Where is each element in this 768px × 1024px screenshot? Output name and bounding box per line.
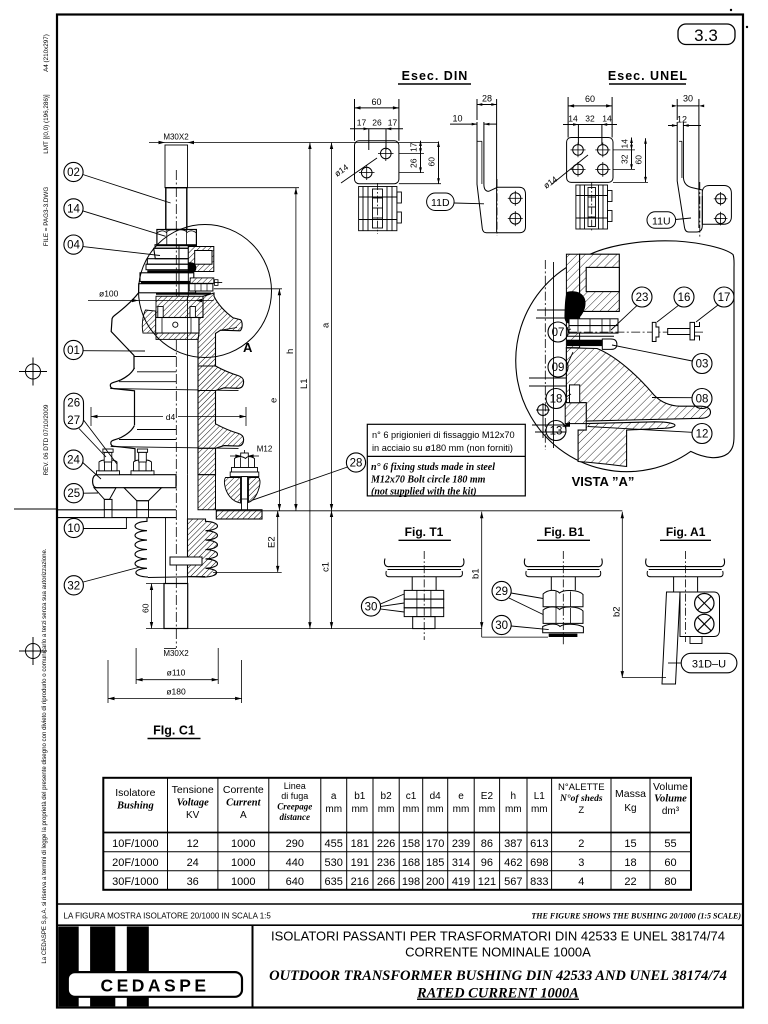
callout 09 (548, 357, 568, 377)
svg-text:Esec. DIN: Esec. DIN (402, 69, 469, 83)
dim b2 (621, 512, 623, 678)
svg-text:613: 613 (530, 838, 548, 850)
svg-text:10: 10 (452, 114, 462, 124)
flange hub right hatched (198, 475, 216, 510)
corrugated lower porcelain left (135, 518, 148, 578)
svg-text:158: 158 (402, 838, 420, 850)
svg-text:c1: c1 (406, 791, 417, 802)
svg-text:26: 26 (409, 158, 419, 168)
label 11U (647, 212, 676, 229)
svg-text:86: 86 (481, 838, 493, 850)
stem dim 60 (146, 583, 164, 585)
bolt shafts through plate (104, 510, 112, 518)
svg-text:12: 12 (187, 838, 199, 850)
svg-text:10F/1000: 10F/1000 (112, 838, 158, 850)
svg-text:96: 96 (481, 857, 493, 869)
shed3 right section hatched (198, 391, 244, 449)
clamp plate item 07 in main fig (156, 318, 199, 334)
svg-text:440: 440 (286, 857, 304, 869)
svg-text:60: 60 (634, 155, 644, 165)
DIN hole label dia14 (341, 158, 377, 183)
A1 rod (673, 577, 675, 592)
callout 16 (674, 287, 694, 307)
callouts left column (64, 162, 366, 595)
callout 04 (64, 235, 83, 254)
svg-text:Bushing: Bushing (116, 801, 154, 812)
callout 13 (546, 421, 566, 441)
clamp thin hatch row (190, 278, 214, 283)
shed3 left profile (111, 425, 135, 474)
svg-text:216: 216 (351, 876, 369, 888)
black spring pack small (188, 262, 196, 273)
svg-text:c1: c1 (321, 562, 332, 572)
svg-text:640: 640 (286, 876, 304, 888)
svg-text:CEDASPE: CEDASPE (100, 976, 209, 996)
callout 25 (64, 484, 83, 503)
svg-text:FILE = PAG3-3.DWG: FILE = PAG3-3.DWG (43, 187, 50, 247)
CEDASPE logo black field (58, 926, 149, 1006)
shed2 left profile (110, 368, 134, 425)
svg-text:Voltage: Voltage (177, 798, 209, 809)
svg-text:M12x70 Bolt circle 180 mm: M12x70 Bolt circle 180 mm (370, 475, 486, 486)
svg-text:419: 419 (452, 876, 470, 888)
svg-text:02: 02 (67, 167, 80, 179)
svg-text:in acciaio su ø180 mm (non for: in acciaio su ø180 mm (non forniti) (372, 443, 513, 453)
svg-text:Kg: Kg (624, 803, 636, 814)
black spring pack (564, 291, 585, 324)
svg-text:28: 28 (350, 458, 363, 470)
bottom stem (164, 584, 188, 629)
UNEL side bracket 11U profile (677, 122, 702, 232)
svg-text:Massa: Massa (615, 788, 646, 800)
page number box 3.3 (678, 24, 735, 45)
svg-text:ISOLATORI PASSANTI PER TRASFOR: ISOLATORI PASSANTI PER TRASFORMATORI DIN… (271, 929, 725, 944)
T1 centerline (423, 551, 425, 640)
svg-text:24: 24 (67, 455, 80, 467)
upper rod section (166, 188, 187, 230)
svg-text:31D–U: 31D–U (692, 658, 726, 670)
shed1 contour line (134, 356, 176, 358)
svg-text:170: 170 (426, 838, 444, 850)
UNEL plate holes (573, 145, 584, 156)
A1 bolt cross bottom (695, 614, 714, 633)
svg-text:60: 60 (371, 97, 381, 107)
svg-text:30: 30 (683, 94, 693, 104)
callout 17 (714, 287, 734, 307)
svg-text:M12: M12 (257, 445, 273, 454)
svg-text:455: 455 (325, 838, 343, 850)
extension line h top (188, 187, 300, 189)
DIN clamp body under plate (359, 183, 402, 234)
svg-text:387: 387 (504, 838, 522, 850)
svg-text:60: 60 (141, 603, 151, 613)
shed2 underside line (110, 389, 238, 391)
DIN plate hole upper (381, 148, 392, 159)
svg-text:14: 14 (602, 114, 612, 124)
svg-text:LMT [(0,0) (196,286)]: LMT [(0,0) (196,286)] (43, 94, 50, 154)
A1 flat bar (662, 592, 680, 684)
A1 centerline (685, 551, 687, 642)
svg-text:FIg. C1: FIg. C1 (153, 724, 195, 738)
flange lug wedges hatched (224, 478, 240, 504)
svg-text:08: 08 (696, 394, 709, 406)
svg-text:23: 23 (636, 292, 649, 304)
svg-text:M30X2: M30X2 (163, 133, 189, 142)
svg-text:Fig. B1: Fig. B1 (544, 525, 584, 539)
svg-text:121: 121 (478, 876, 496, 888)
svg-text:04: 04 (67, 240, 80, 252)
DIN plate hole lower (361, 167, 372, 178)
DIN side centerline (496, 179, 498, 236)
shed2 right section hatched (198, 366, 244, 391)
svg-text:12: 12 (696, 429, 709, 441)
dim line e (278, 289, 280, 511)
svg-text:mm: mm (378, 804, 395, 815)
svg-text:1000: 1000 (231, 857, 255, 869)
svg-text:3: 3 (578, 857, 584, 869)
svg-text:mm: mm (453, 804, 470, 815)
svg-text:18: 18 (624, 857, 636, 869)
detail boundary blob (516, 241, 734, 472)
svg-text:314: 314 (452, 857, 470, 869)
item 18 tab (570, 385, 580, 403)
dim b1 (481, 512, 483, 637)
svg-text:32: 32 (585, 114, 595, 124)
callout 14 (64, 199, 83, 218)
title block divider (252, 925, 254, 1007)
svg-text:La CEDASPE S.p.A. si riserva a: La CEDASPE S.p.A. si riserva a termini d… (41, 548, 48, 964)
svg-text:A: A (240, 810, 247, 821)
svg-text:833: 833 (530, 876, 548, 888)
thread dim arrows (149, 142, 439, 144)
svg-text:b2: b2 (611, 606, 622, 617)
dim line E2 (277, 511, 279, 573)
callout 03 (692, 354, 712, 374)
svg-text:80: 80 (664, 876, 676, 888)
item 13 cement wedge (562, 422, 570, 427)
gasket stack item 03 (567, 335, 614, 337)
top stud thread (165, 145, 188, 188)
region A detail circle (139, 225, 272, 358)
svg-text:236: 236 (377, 857, 395, 869)
svg-text:07: 07 (552, 327, 565, 339)
svg-text:N°of sheds: N°of sheds (559, 793, 603, 804)
svg-text:60: 60 (585, 94, 595, 104)
T1 porcelain end profile (384, 559, 463, 567)
gasket lines under cap (156, 293, 211, 295)
B1 porcelain end profile (524, 559, 602, 567)
shed under lip strip and barrel (578, 422, 675, 467)
left hatch patch beside clamp (142, 310, 155, 333)
porcelain head right section hatched (198, 293, 242, 366)
callout 23 (632, 287, 652, 307)
conductor tube lines through cap (178, 246, 180, 319)
left side partial structures (537, 309, 566, 311)
waist contour pair 2 (137, 429, 176, 431)
svg-text:185: 185 (426, 857, 444, 869)
label 31D-U (681, 653, 737, 673)
tank plate right hatched (216, 510, 262, 519)
svg-text:Fig. A1: Fig. A1 (666, 525, 706, 539)
svg-text:mm: mm (403, 804, 420, 815)
svg-text:29: 29 (495, 586, 508, 598)
svg-text:55: 55 (664, 838, 676, 850)
svg-text:L1: L1 (299, 378, 310, 389)
B1 bottom level line (482, 636, 548, 638)
svg-text:17: 17 (718, 292, 731, 304)
svg-text:17: 17 (357, 118, 367, 128)
callout 08 (692, 389, 712, 409)
svg-text:290: 290 (286, 838, 304, 850)
svg-text:e: e (458, 791, 464, 802)
d4 dim (90, 407, 92, 426)
svg-text:h: h (511, 791, 517, 802)
extension e top (214, 288, 282, 290)
DIN terminal plate front (355, 141, 399, 184)
CEDASPE logo box (68, 972, 242, 997)
svg-text:168: 168 (402, 857, 420, 869)
B1 rod tip dark band (549, 634, 578, 637)
svg-text:25: 25 (67, 488, 80, 500)
svg-text:mm: mm (479, 804, 496, 815)
svg-text:2: 2 (578, 838, 584, 850)
svg-text:22: 22 (624, 876, 636, 888)
svg-text:di fuga: di fuga (281, 791, 308, 801)
svg-text:15: 15 (624, 838, 636, 850)
svg-text:30: 30 (495, 620, 508, 632)
svg-text:10: 10 (67, 523, 80, 535)
top reference line (216, 510, 622, 512)
svg-text:181: 181 (351, 838, 369, 850)
svg-text:E2: E2 (267, 536, 278, 548)
svg-text:b1: b1 (354, 791, 366, 802)
svg-text:30: 30 (365, 602, 378, 614)
svg-text:RATED CURRENT 1000A: RATED CURRENT 1000A (416, 986, 579, 1002)
T1 nut 3 (404, 608, 444, 617)
svg-text:Current: Current (226, 798, 262, 809)
A1 clamp plate with bolts (680, 592, 720, 637)
svg-text:26: 26 (67, 398, 80, 410)
svg-text:A4 (210x297): A4 (210x297) (43, 34, 50, 72)
bolt axis centerline (568, 331, 703, 333)
fold mark (14, 508, 56, 510)
svg-text:L1: L1 (534, 791, 546, 802)
svg-text:mm: mm (325, 804, 342, 815)
svg-text:567: 567 (504, 876, 522, 888)
svg-text:32: 32 (67, 580, 80, 592)
callout 24 (64, 450, 83, 469)
svg-text:16: 16 (678, 292, 691, 304)
svg-text:b2: b2 (381, 791, 393, 802)
corrugated right section hatched (188, 519, 218, 577)
callout 07 (548, 322, 568, 342)
svg-text:24: 24 (187, 857, 199, 869)
callout 32 (64, 576, 83, 595)
svg-text:530: 530 (325, 857, 343, 869)
svg-text:200: 200 (426, 876, 444, 888)
svg-text:mm: mm (427, 804, 444, 815)
B1 callout 29 (492, 581, 511, 600)
svg-text:dm³: dm³ (662, 806, 680, 817)
A1 porcelain end profile (646, 559, 725, 567)
svg-text:Creepage: Creepage (277, 802, 312, 812)
svg-text:LA FIGURA MOSTRA ISOLATORE 20/: LA FIGURA MOSTRA ISOLATORE 20/1000 IN SC… (64, 912, 272, 921)
registration mark lower-left (19, 637, 47, 665)
svg-text:mm: mm (531, 804, 548, 815)
svg-text:Volume: Volume (654, 794, 687, 805)
svg-text:Corrente: Corrente (223, 784, 264, 796)
bolt assembly left items 26 27 (97, 449, 120, 475)
dim line h (295, 188, 297, 511)
svg-text:635: 635 (325, 876, 343, 888)
weld datum mark (538, 405, 549, 416)
svg-text:mm: mm (351, 804, 368, 815)
bolt assembly right (131, 449, 154, 475)
UNEL side flange plate (702, 186, 731, 225)
fixing stud M12 right item 28 (224, 445, 272, 522)
B1 rod (550, 577, 552, 590)
extension E2 bottom (213, 571, 282, 573)
svg-text:Tensione: Tensione (172, 784, 214, 796)
svg-text:26: 26 (372, 118, 382, 128)
svg-text:N°ALETTE: N°ALETTE (558, 782, 605, 793)
svg-text:THE FIGURE SHOWS THE BUSHING 2: THE FIGURE SHOWS THE BUSHING 20/1000 (1:… (531, 912, 741, 921)
svg-text:17: 17 (388, 118, 398, 128)
svg-text:ø110: ø110 (167, 668, 186, 678)
svg-text:30F/1000: 30F/1000 (112, 876, 158, 888)
svg-text:ø100: ø100 (99, 289, 119, 299)
svg-text:60: 60 (664, 857, 676, 869)
svg-text:266: 266 (377, 876, 395, 888)
UNEL right dims 14 32 60 (613, 149, 635, 151)
svg-text:4: 4 (578, 876, 584, 888)
T1 rod (411, 577, 413, 591)
svg-text:VISTA ”A”: VISTA ”A” (572, 474, 635, 489)
T1 nut 2 (404, 599, 444, 608)
T1 rod tip (413, 617, 435, 629)
svg-text:CORRENTE NOMINALE 1000A: CORRENTE NOMINALE 1000A (405, 945, 591, 960)
svg-text:1000: 1000 (231, 838, 255, 850)
cement zone under clamp plate hatched (156, 333, 199, 339)
svg-text:b1: b1 (471, 568, 482, 579)
svg-text:Fig. T1: Fig. T1 (405, 525, 444, 539)
stray plot dots (730, 9, 732, 11)
svg-text:h: h (285, 349, 296, 354)
svg-text:191: 191 (351, 857, 369, 869)
shed1 underside lip right (221, 328, 238, 331)
svg-text:11D: 11D (431, 197, 450, 209)
svg-text:28: 28 (482, 94, 492, 104)
footer scale strip borders (57, 903, 743, 905)
extension stem bottom long (188, 628, 482, 630)
svg-text:e: e (268, 398, 279, 403)
svg-text:462: 462 (504, 857, 522, 869)
B1 thin nut (543, 624, 584, 633)
item 16 washer part (652, 322, 659, 341)
clamp bolts above plate (158, 307, 163, 318)
svg-text:01: 01 (67, 345, 80, 357)
flange lug block (565, 403, 586, 424)
B1 callout 30 (492, 615, 511, 634)
centerline main axis (175, 170, 177, 648)
callout 02 (64, 162, 83, 181)
UNEL side centerline (699, 182, 701, 237)
svg-text:Volume: Volume (653, 781, 688, 793)
svg-text:n° 6 fixing studs made in stee: n° 6 fixing studs made in steel (371, 462, 495, 473)
svg-text:Isolatore: Isolatore (115, 787, 155, 799)
bore edge line right (187, 296, 189, 475)
svg-text:32: 32 (620, 154, 630, 164)
cap block hatched (580, 254, 620, 311)
svg-text:11U: 11U (652, 215, 670, 227)
UNEL clamp body under plate (576, 182, 612, 232)
wall column to flange hatched (198, 448, 216, 474)
svg-text:a: a (321, 322, 332, 328)
stud shaft (242, 477, 248, 517)
svg-text:18: 18 (550, 394, 563, 406)
porcelain head shed section hatched (566, 348, 710, 421)
svg-text:14: 14 (568, 114, 578, 124)
T1 callout 30 (361, 597, 380, 616)
flange plate item 24 (93, 475, 176, 488)
conductor tube lines lower (165, 518, 167, 584)
clamp item 07 (569, 319, 618, 326)
callout 28 (346, 453, 365, 472)
UNEL terminal plate front (567, 138, 613, 183)
gland stack item 04 (155, 245, 196, 249)
svg-text:Linea: Linea (284, 781, 306, 791)
test tap item 32 (170, 557, 202, 565)
callout 12 (692, 424, 712, 444)
tank plate item 10 left (58, 509, 177, 511)
cone spring left item 25 (94, 488, 116, 500)
svg-text:M30X2: M30X2 (163, 649, 189, 658)
porcelain head left profile (111, 293, 138, 369)
VISTA A callouts (546, 287, 734, 444)
porcelain wall column hatched (566, 254, 579, 348)
svg-text:ø180: ø180 (166, 687, 186, 697)
svg-text:A: A (243, 340, 253, 355)
waist contour pair 1 (137, 371, 176, 373)
svg-text:Esec. UNEL: Esec. UNEL (608, 69, 688, 83)
svg-text:20F/1000: 20F/1000 (112, 857, 158, 869)
dim line a and c1 (331, 143, 333, 629)
callout 26 27 stadium (64, 393, 84, 429)
svg-text:13: 13 (550, 426, 563, 438)
svg-text:226: 226 (377, 838, 395, 850)
svg-text:14: 14 (67, 203, 80, 215)
head cement zone hatched (156, 296, 214, 317)
cap terminal screw small (214, 282, 222, 284)
svg-text:3.3: 3.3 (694, 26, 718, 45)
hex gland nut item 14 (157, 230, 197, 246)
svg-text:d4: d4 (166, 412, 176, 422)
DIN side bracket holes (510, 193, 521, 204)
svg-text:OUTDOOR TRANSFORMER BUSHING DI: OUTDOOR TRANSFORMER BUSHING DIN 42533 AN… (269, 968, 727, 984)
B1 centerline (562, 551, 564, 645)
svg-text:239: 239 (452, 838, 470, 850)
svg-text:60: 60 (427, 157, 437, 167)
svg-text:36: 36 (187, 876, 199, 888)
svg-text:198: 198 (402, 876, 420, 888)
svg-text:698: 698 (530, 857, 548, 869)
corrugation bottom line (148, 577, 205, 578)
svg-text:27: 27 (67, 415, 80, 427)
svg-text:d4: d4 (430, 791, 442, 802)
dim line L1 (309, 143, 311, 629)
svg-text:mm: mm (505, 804, 522, 815)
B1 big nut 2 (543, 607, 583, 624)
